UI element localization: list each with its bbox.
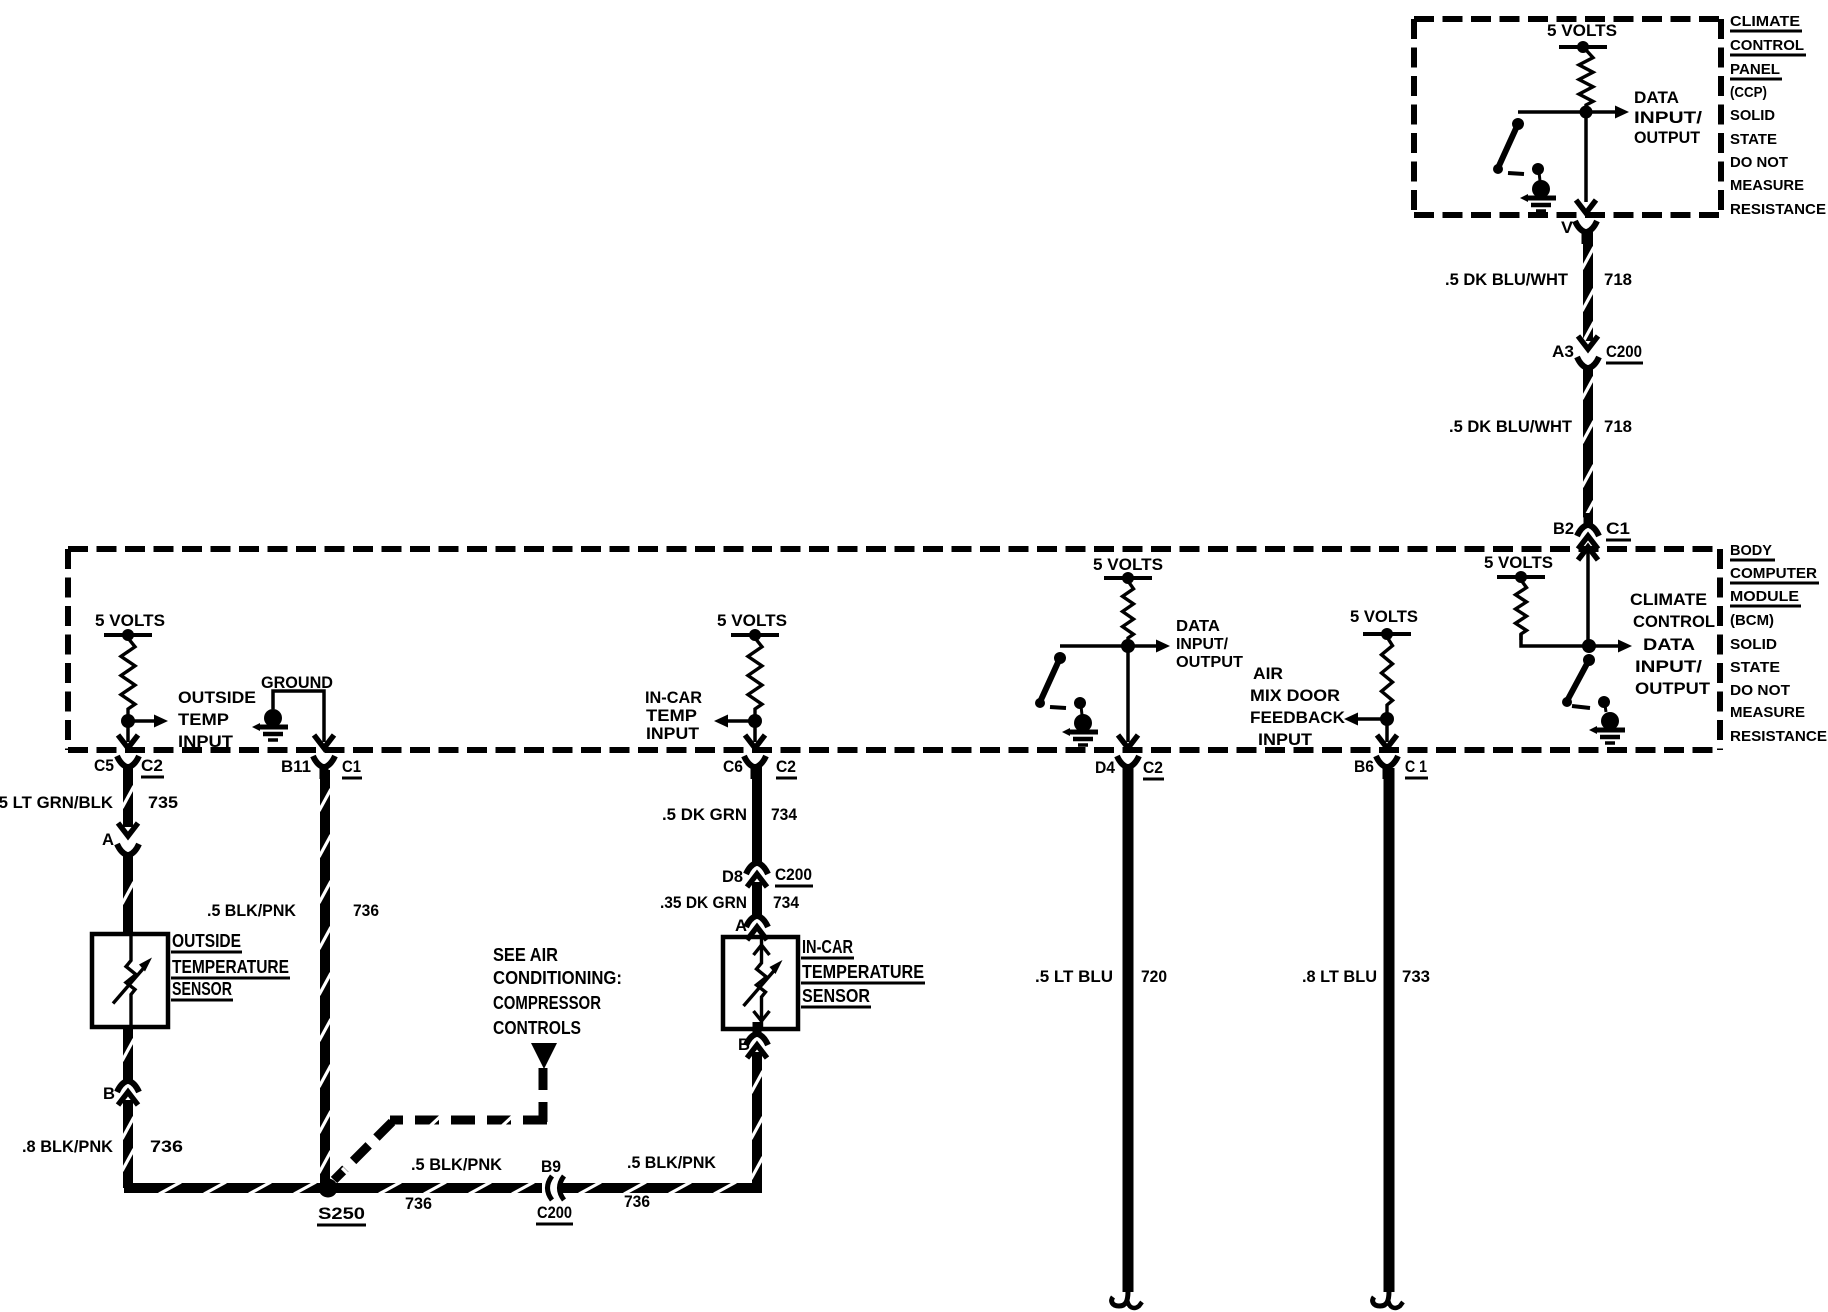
IN-CAR TEMP INPUT arrow xyxy=(722,719,755,723)
svg-text:C200: C200 xyxy=(537,1203,572,1222)
wire 736 in-car B down to horizontal run xyxy=(752,1052,762,1190)
CCP 5 volt supply bar xyxy=(1559,45,1607,49)
svg-text:.5 BLK/PNK: .5 BLK/PNK xyxy=(207,901,297,920)
wire from CCP node to pin V xyxy=(1584,112,1588,202)
air mix door 5 volt bar xyxy=(1363,632,1411,636)
svg-text:.5 BLK/PNK: .5 BLK/PNK xyxy=(627,1153,717,1172)
svg-text:MEASURE: MEASURE xyxy=(1730,177,1804,194)
connector pin B (outside sensor) xyxy=(117,1081,127,1092)
air mix door feedback node xyxy=(1380,712,1394,726)
svg-text:IN-CAR: IN-CAR xyxy=(645,688,702,707)
svg-text:OUTPUT: OUTPUT xyxy=(1634,128,1701,147)
svg-text:A3: A3 xyxy=(1552,342,1574,361)
svg-text:.5 BLK/PNK: .5 BLK/PNK xyxy=(411,1155,503,1174)
svg-text:B6: B6 xyxy=(1354,757,1374,776)
svg-text:C6: C6 xyxy=(723,757,743,776)
wire 718 (.5 DK BLU/WHT) CCP V to C200 xyxy=(1583,230,1593,341)
svg-text:B: B xyxy=(738,1035,750,1054)
svg-text:SOLID: SOLID xyxy=(1730,636,1777,653)
svg-text:MIX DOOR: MIX DOOR xyxy=(1250,686,1340,705)
climate control pull-up resistor xyxy=(1516,580,1527,640)
svg-text:C2: C2 xyxy=(1143,758,1163,777)
svg-text:SENSOR: SENSOR xyxy=(802,986,870,1006)
svg-text:SENSOR: SENSOR xyxy=(172,979,232,999)
svg-text:SOLID: SOLID xyxy=(1730,107,1775,124)
climate control data node xyxy=(1582,639,1596,653)
svg-text:FEEDBACK: FEEDBACK xyxy=(1250,708,1346,727)
wire 734 (.35 DK GRN) D8 to sensor A xyxy=(752,882,762,916)
wire node to pin D4 xyxy=(1126,646,1130,742)
outside temp 5 volt bar xyxy=(104,633,152,637)
svg-text:.5 DK BLU/WHT: .5 DK BLU/WHT xyxy=(1449,417,1573,436)
CCP pull-up resistor xyxy=(1579,50,1593,112)
svg-text:C1: C1 xyxy=(1606,519,1630,538)
svg-text:718: 718 xyxy=(1604,417,1632,436)
svg-text:.35 DK GRN: .35 DK GRN xyxy=(660,893,747,912)
svg-text:INPUT: INPUT xyxy=(178,732,234,751)
svg-text:5 VOLTS: 5 VOLTS xyxy=(717,611,787,630)
svg-text:DATA: DATA xyxy=(1643,635,1695,654)
svg-text:TEMP: TEMP xyxy=(646,706,697,725)
svg-text:B9: B9 xyxy=(541,1157,561,1176)
connector C200 pin D8 xyxy=(746,863,756,874)
wire outside sensor to pin B xyxy=(123,1027,133,1080)
climate control 5 volt bar xyxy=(1497,575,1545,579)
svg-text:C1: C1 xyxy=(342,757,361,776)
svg-text:(CCP): (CCP) xyxy=(1730,84,1767,101)
svg-text:C 1: C 1 xyxy=(1405,757,1427,776)
connector C200 pin A3 xyxy=(1578,336,1598,349)
svg-text:GROUND: GROUND xyxy=(261,673,333,692)
wire 733 continuation squiggle xyxy=(1373,1291,1389,1306)
svg-text:.5 DK GRN: .5 DK GRN xyxy=(662,805,747,824)
svg-text:STATE: STATE xyxy=(1730,131,1777,148)
svg-text:CONDITIONING:: CONDITIONING: xyxy=(493,968,622,988)
svg-text:C200: C200 xyxy=(1606,342,1642,361)
svg-text:DATA: DATA xyxy=(1634,88,1679,107)
svg-text:INPUT/: INPUT/ xyxy=(1635,657,1702,676)
AIR MIX DOOR FEEDBACK INPUT arrow xyxy=(1352,717,1387,721)
wire node to pin B6 xyxy=(1385,719,1389,742)
svg-text:DO NOT: DO NOT xyxy=(1730,154,1788,171)
svg-text:RESISTANCE: RESISTANCE xyxy=(1730,201,1826,218)
climate control solid-state driver switch xyxy=(1583,654,1595,666)
svg-text:INPUT/: INPUT/ xyxy=(1176,636,1229,653)
BCM solid-state driver switch (data) xyxy=(1060,644,1128,648)
splice S250 xyxy=(319,1179,338,1198)
svg-text:.8 BLK/PNK: .8 BLK/PNK xyxy=(22,1137,114,1156)
svg-text:COMPUTER: COMPUTER xyxy=(1730,565,1817,582)
svg-text:OUTPUT: OUTPUT xyxy=(1635,679,1711,698)
svg-text:(BCM): (BCM) xyxy=(1730,612,1774,629)
in-car temperature sensor box xyxy=(723,937,798,1029)
wire node to pin C6 xyxy=(753,721,757,742)
svg-text:CONTROLS: CONTROLS xyxy=(493,1018,581,1038)
svg-text:D8: D8 xyxy=(722,867,743,886)
svg-text:CONTROL: CONTROL xyxy=(1633,612,1715,631)
BCM DATA INPUT/OUTPUT arrow xyxy=(1128,644,1162,648)
svg-text:D4: D4 xyxy=(1095,758,1115,777)
climate control resistor elbow xyxy=(1521,634,1586,646)
svg-text:C5: C5 xyxy=(94,756,114,775)
CCP data node xyxy=(1580,106,1593,119)
connector pin A (outside sensor) xyxy=(118,823,138,836)
svg-text:.5 LT GRN/BLK: .5 LT GRN/BLK xyxy=(0,793,114,812)
svg-text:OUTPUT: OUTPUT xyxy=(1176,654,1243,671)
svg-text:S250: S250 xyxy=(318,1204,365,1223)
wire 734 (.5 DK GRN) C6 to C200 D8 xyxy=(752,766,762,862)
CCP pin V connector (edge) xyxy=(1576,200,1596,213)
svg-text:TEMP: TEMP xyxy=(178,710,229,729)
connector C1 pin B6 (edge) xyxy=(1377,735,1397,748)
dashed wire diagonal segment to S250 xyxy=(334,1122,392,1180)
air mix door pull-up resistor xyxy=(1382,637,1393,719)
svg-text:TEMPERATURE: TEMPERATURE xyxy=(802,962,924,982)
svg-text:733: 733 xyxy=(1402,967,1430,986)
svg-text:A: A xyxy=(735,916,747,935)
svg-text:B11: B11 xyxy=(281,757,311,776)
svg-text:INPUT: INPUT xyxy=(646,724,700,743)
arrow into BCM at B2 xyxy=(1578,547,1598,560)
svg-text:5 VOLTS: 5 VOLTS xyxy=(1093,555,1163,574)
connector C200 pin B9 (in-line) xyxy=(542,1182,562,1195)
svg-text:.5 LT BLU: .5 LT BLU xyxy=(1035,967,1113,986)
climate control panel (CCP) dashed box xyxy=(1414,16,1721,22)
svg-text:.8 LT BLU: .8 LT BLU xyxy=(1302,967,1377,986)
svg-text:PANEL: PANEL xyxy=(1730,61,1780,78)
connector pin B (in-car sensor) xyxy=(746,1034,756,1045)
connector C2 pin C5 (edge) xyxy=(118,735,138,748)
svg-text:CONTROL: CONTROL xyxy=(1730,37,1804,54)
svg-text:718: 718 xyxy=(1604,270,1632,289)
svg-text:RESISTANCE: RESISTANCE xyxy=(1730,728,1827,745)
svg-text:5 VOLTS: 5 VOLTS xyxy=(1350,607,1418,626)
dashed wire horizontal segment xyxy=(390,1116,547,1125)
svg-text:STATE: STATE xyxy=(1730,659,1780,676)
outside temp input node xyxy=(121,714,135,728)
svg-text:AIR: AIR xyxy=(1253,664,1283,683)
wire 720 continuation squiggle xyxy=(1112,1291,1128,1306)
CLIMATE CONTROL DATA INPUT/OUTPUT arrow xyxy=(1589,644,1624,648)
wire 735 (.5 LT GRN/BLK) C5 to sensor A xyxy=(123,766,133,827)
connector pin A (in-car sensor) xyxy=(746,916,756,927)
arrow at pin B11 xyxy=(314,735,334,748)
in-car temp input node xyxy=(748,714,762,728)
svg-text:735: 735 xyxy=(148,793,178,812)
svg-text:734: 734 xyxy=(771,805,797,824)
svg-text:INPUT: INPUT xyxy=(1258,730,1313,749)
dashed wire vertical segment xyxy=(539,1068,548,1122)
outside temp pull-up resistor xyxy=(121,638,135,721)
svg-text:MEASURE: MEASURE xyxy=(1730,704,1805,721)
svg-text:COMPRESSOR: COMPRESSOR xyxy=(493,993,601,1013)
svg-text:IN-CAR: IN-CAR xyxy=(802,937,853,957)
svg-text:SEE AIR: SEE AIR xyxy=(493,945,558,965)
body computer module (BCM) dashed box xyxy=(68,546,1720,552)
svg-text:5 VOLTS: 5 VOLTS xyxy=(1484,553,1553,572)
wire 736 (.5 BLK/PNK) B11 to splice S250 xyxy=(320,770,330,1184)
svg-text:720: 720 xyxy=(1141,967,1167,986)
wire node to pin C5 xyxy=(126,721,130,742)
svg-text:CLIMATE: CLIMATE xyxy=(1630,590,1707,609)
BCM data node xyxy=(1121,639,1135,653)
svg-text:C200: C200 xyxy=(775,865,812,884)
in-car temp 5 volt bar xyxy=(731,633,779,637)
svg-text:BODY: BODY xyxy=(1730,542,1772,559)
svg-text:5 VOLTS: 5 VOLTS xyxy=(95,611,165,630)
svg-text:V: V xyxy=(1561,218,1574,237)
connector C2 pin D4 (edge) xyxy=(1118,735,1138,748)
wire sensor A to outside temp sensor xyxy=(123,852,133,934)
connector C2 pin C6 (edge) xyxy=(745,735,765,748)
svg-text:DO NOT: DO NOT xyxy=(1730,682,1790,699)
svg-text:DATA: DATA xyxy=(1176,618,1220,635)
BCM data pull-up resistor xyxy=(1123,581,1134,646)
wire 736 (.8 BLK/PNK) B down to splice corner xyxy=(123,1100,133,1188)
svg-text:CLIMATE: CLIMATE xyxy=(1730,13,1800,30)
svg-text:OUTSIDE: OUTSIDE xyxy=(178,688,256,707)
svg-text:736: 736 xyxy=(353,901,379,920)
svg-text:.5 DK BLU/WHT: .5 DK BLU/WHT xyxy=(1445,270,1569,289)
svg-text:MODULE: MODULE xyxy=(1730,588,1799,605)
BCM data 5 volt bar xyxy=(1104,576,1152,580)
svg-text:C2: C2 xyxy=(776,757,796,776)
svg-text:A: A xyxy=(102,830,114,849)
connector C1 pin B2 (BCM top edge) xyxy=(1577,525,1587,536)
svg-text:B: B xyxy=(103,1084,115,1103)
connector C1 pin B11 (edge) xyxy=(313,756,323,767)
svg-text:INPUT/: INPUT/ xyxy=(1634,108,1702,127)
svg-text:C2: C2 xyxy=(141,756,163,775)
OUTSIDE TEMP INPUT arrow xyxy=(128,719,160,723)
svg-text:736: 736 xyxy=(150,1137,183,1156)
CCP solid-state driver switch to ground xyxy=(1518,110,1586,114)
svg-text:5 VOLTS: 5 VOLTS xyxy=(1547,21,1617,40)
in-car temp pull-up resistor xyxy=(748,638,762,721)
BCM internal ground xyxy=(264,709,282,727)
svg-text:736: 736 xyxy=(624,1192,650,1211)
off-page arrow to compressor controls xyxy=(531,1043,557,1069)
ground bracket wire xyxy=(273,691,324,742)
CCP DATA INPUT/OUTPUT arrow xyxy=(1586,110,1621,114)
wire 718 (.5 DK BLU/WHT) C200 to BCM B2 xyxy=(1583,365,1593,524)
svg-text:B2: B2 xyxy=(1553,519,1574,538)
svg-text:734: 734 xyxy=(773,893,799,912)
svg-text:OUTSIDE: OUTSIDE xyxy=(172,931,241,951)
wire 720 (.5 LT BLU) xyxy=(1123,768,1134,1292)
svg-text:TEMPERATURE: TEMPERATURE xyxy=(172,957,289,977)
wire 733 (.8 LT BLU) xyxy=(1384,768,1395,1292)
outside temperature sensor box xyxy=(92,934,168,1027)
svg-text:736: 736 xyxy=(405,1194,432,1213)
wire 736 horizontal run (corner to in-car sensor B) xyxy=(124,1183,762,1193)
